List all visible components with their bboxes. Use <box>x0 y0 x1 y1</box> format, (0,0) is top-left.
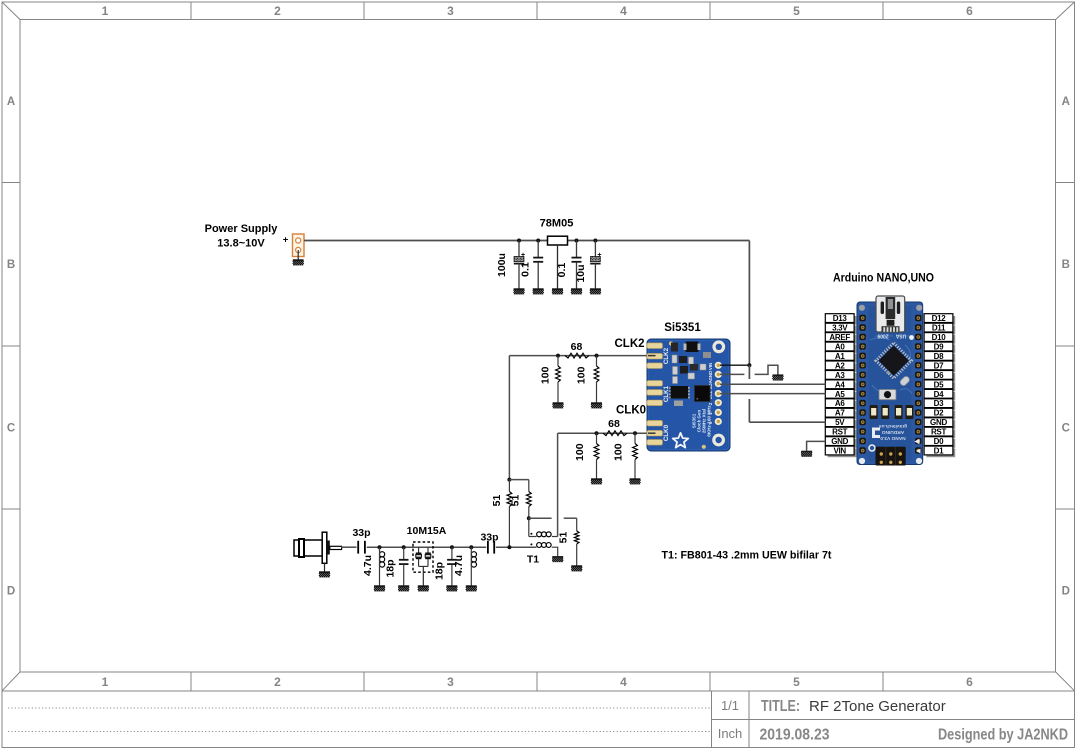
pin label D4 <box>926 392 955 401</box>
svg-text:D11: D11 <box>932 324 946 333</box>
svg-text:1: 1 <box>102 4 109 18</box>
grid row letters left <box>7 96 15 598</box>
svg-text:Arduino NANO,UNO: Arduino NANO,UNO <box>833 273 934 285</box>
svg-text:2: 2 <box>274 675 281 689</box>
crystal X2 <box>427 547 429 553</box>
crystal X1 <box>418 547 420 553</box>
wire CLK0 stub over pad <box>648 432 656 434</box>
capacitor 18p (C7) <box>451 547 453 559</box>
wire CLK0 net <box>558 432 648 434</box>
ground under R7 <box>571 566 582 572</box>
smd below ICs <box>674 401 683 407</box>
pin label A7 <box>828 411 857 420</box>
wire SCL to A5 <box>720 393 825 395</box>
ground under filter <box>418 586 429 592</box>
IC SOIC8 <box>671 386 689 399</box>
pin label VIN <box>828 448 857 457</box>
node junction <box>507 545 511 549</box>
wire BNC shell to ground <box>324 563 326 571</box>
svg-text:100: 100 <box>574 443 586 461</box>
svg-text:51: 51 <box>509 495 521 507</box>
svg-text:+: + <box>283 235 289 246</box>
wire Si5351 GND pad step to ground <box>720 373 744 375</box>
node junction CLK2 branch <box>507 478 511 482</box>
phase dot primary <box>530 533 532 535</box>
capacitor 33p series (C8) <box>487 541 489 554</box>
svg-text:78M05: 78M05 <box>540 218 574 230</box>
node junction L2 <box>469 545 473 549</box>
ground at T1 secondary <box>552 556 563 562</box>
pin label 5V <box>828 420 857 429</box>
left band row separators <box>2 182 20 184</box>
transformer T1 secondary winding <box>537 543 552 548</box>
ground at BNC <box>319 572 330 578</box>
resistor 51 (R7) <box>574 531 579 544</box>
pin label D5 <box>926 382 955 391</box>
svg-text:5: 5 <box>793 675 800 689</box>
svg-text:D6: D6 <box>934 371 944 380</box>
pin label D8 <box>926 354 955 363</box>
svg-text:T1: FB801-43 .2mm UEW bifilar: T1: FB801-43 .2mm UEW bifilar 7t <box>662 550 832 562</box>
header pads right column <box>715 362 722 425</box>
svg-text:A: A <box>7 96 15 108</box>
wire to second 51 resistor <box>509 479 528 481</box>
pin label A2 <box>828 363 857 372</box>
capacitor C1 100u electrolytic <box>514 241 525 289</box>
svg-text:68: 68 <box>571 341 583 353</box>
resistor 51 (R6) <box>528 480 530 492</box>
svg-text:B: B <box>7 259 15 271</box>
svg-text:C: C <box>1062 423 1070 435</box>
svg-text:5V: 5V <box>835 418 845 427</box>
mini USB connector <box>876 296 905 332</box>
resistor 100 (R2) <box>596 356 598 366</box>
svg-text:6: 6 <box>966 675 973 689</box>
svg-text:A: A <box>1062 96 1070 108</box>
svg-text:4: 4 <box>620 4 627 18</box>
svg-text:Si5351: Si5351 <box>664 322 701 334</box>
svg-text:2009: 2009 <box>877 333 888 339</box>
pin label D6 <box>926 373 955 382</box>
capacitor C3 0.1 <box>572 241 582 289</box>
svg-text:A4: A4 <box>835 380 845 389</box>
svg-text:2019.08.23: 2019.08.23 <box>760 727 830 744</box>
svg-text:4.7u: 4.7u <box>453 555 465 576</box>
svg-text:4.7u: 4.7u <box>362 555 374 576</box>
svg-text:CLK0: CLK0 <box>616 405 646 417</box>
svg-text:NANO V3.0: NANO V3.0 <box>880 435 906 441</box>
svg-text:A3: A3 <box>835 371 845 380</box>
svg-text:+: + <box>597 252 601 259</box>
inductor 4.7u (L2) <box>470 547 472 551</box>
CLK2 pads <box>647 343 663 349</box>
svg-text:51: 51 <box>491 495 503 507</box>
svg-text:D: D <box>1062 586 1070 598</box>
wire regulator ground pin <box>557 245 559 289</box>
svg-text:33p: 33p <box>352 527 370 539</box>
silk text column <box>691 405 711 437</box>
svg-text:5: 5 <box>793 4 800 18</box>
Si5351 module U1 board <box>647 339 730 451</box>
ground under C3 <box>571 289 582 295</box>
capacitor 33p series (C5) <box>357 541 359 554</box>
svg-text:D5: D5 <box>934 380 944 389</box>
svg-text:A7: A7 <box>835 409 845 418</box>
svg-text:D4: D4 <box>934 390 944 399</box>
pin label A5 <box>828 392 857 401</box>
ground <box>553 403 564 409</box>
svg-text:+: + <box>521 252 525 259</box>
capacitor 18p (C6) <box>403 547 405 559</box>
capacitor C4 10u electrolytic <box>590 241 601 289</box>
ground under C2 <box>533 289 544 295</box>
svg-text:1/1: 1/1 <box>721 698 739 713</box>
wire secondary right end to ground <box>552 547 558 556</box>
node junction C7 <box>450 545 454 549</box>
crystal filter 10M15A dashed box <box>413 542 433 572</box>
wire C8 to T1 <box>496 546 537 548</box>
connector J1 power input <box>293 234 305 257</box>
pin label RST <box>828 430 857 439</box>
pin label D3 <box>926 401 955 410</box>
ground under C4 <box>590 289 601 295</box>
pin label A0 <box>828 344 857 353</box>
node junction <box>595 431 599 435</box>
svg-text:B: B <box>1062 259 1070 271</box>
pin label 3.3V <box>828 326 857 335</box>
svg-text:3: 3 <box>447 675 454 689</box>
wire 5V to Arduino <box>749 421 825 423</box>
svg-text:18p: 18p <box>434 562 446 580</box>
wire VIN junction to Si5351 VIN pad <box>720 364 749 366</box>
bottom band column separators <box>190 672 192 691</box>
reset button <box>879 390 896 400</box>
resistor 68 (CLK0) <box>603 431 627 436</box>
silk pin names right <box>708 363 713 424</box>
svg-text:D7: D7 <box>934 361 944 370</box>
svg-text:A1: A1 <box>835 352 845 361</box>
svg-text:A5: A5 <box>835 390 845 399</box>
svg-text:68: 68 <box>608 418 620 430</box>
svg-text:USA: USA <box>895 333 906 339</box>
pin label D2 <box>926 411 955 420</box>
wire crossing to 51 load (with gap over vertical) <box>529 517 552 519</box>
ground (Si5351 GND) <box>772 375 783 381</box>
svg-text:ARDUINO: ARDUINO <box>882 429 905 435</box>
IC TCXO <box>695 386 711 402</box>
svg-text:100: 100 <box>576 366 588 384</box>
capacitor C2 0.1 <box>533 241 543 289</box>
svg-text:D3: D3 <box>934 399 944 408</box>
CLK0 pads <box>647 420 663 426</box>
svg-text:CLK1: CLK1 <box>663 385 670 402</box>
svg-text:RST: RST <box>832 428 848 437</box>
pin label D10 <box>926 335 955 344</box>
transformer T1 primary winding <box>537 532 552 537</box>
svg-text:33p: 33p <box>480 532 498 544</box>
pin label D11 <box>926 326 955 335</box>
svg-text:2: 2 <box>274 4 281 18</box>
svg-text:100u: 100u <box>496 253 508 277</box>
svg-text:D12: D12 <box>932 314 947 323</box>
svg-text:51: 51 <box>558 532 570 544</box>
wire main +V rail <box>304 240 749 242</box>
node junction <box>527 516 531 520</box>
ground under C6 <box>398 586 409 592</box>
pin label A4 <box>828 382 857 391</box>
ground <box>591 403 602 409</box>
ground <box>630 479 641 485</box>
svg-text:TITLE:: TITLE: <box>761 698 800 715</box>
pin label D12 <box>926 316 955 325</box>
svg-text:RST: RST <box>931 428 947 437</box>
grid column numbers top <box>102 4 974 18</box>
svg-text:C: C <box>7 423 15 435</box>
resistor 100 (R3) <box>596 433 598 443</box>
svg-text:8KHz-160 MHz: 8KHz-160 MHz <box>707 405 712 437</box>
svg-text:GND: GND <box>831 437 848 446</box>
svg-text:A6: A6 <box>835 399 845 408</box>
svg-text:A2: A2 <box>835 361 845 370</box>
svg-text:CLK2: CLK2 <box>614 338 644 350</box>
phase dot secondary <box>530 543 532 545</box>
BNC connector J2 <box>294 532 327 563</box>
wire C5 to filter <box>367 546 413 548</box>
wire SDA to A4 <box>720 383 825 385</box>
ground at power connector <box>293 260 304 266</box>
svg-text:D9: D9 <box>934 343 944 352</box>
svg-text:CLK0: CLK0 <box>663 424 670 441</box>
resistor 68 (CLK2) <box>565 353 589 358</box>
regulator 78M05 body <box>548 236 568 245</box>
svg-text:10M15A: 10M15A <box>407 525 447 537</box>
svg-text:1: 1 <box>102 675 109 689</box>
svg-text:Inch: Inch <box>718 726 743 741</box>
wire filter common to ground <box>419 565 428 567</box>
wire vertical below junction (gap at crossing) <box>748 365 750 379</box>
pin label A6 <box>828 401 857 410</box>
svg-text:D13: D13 <box>833 314 848 323</box>
svg-text:Power Supply: Power Supply <box>205 223 279 235</box>
pin label D9 <box>926 344 955 353</box>
svg-text:GND: GND <box>708 371 713 381</box>
svg-text:D2: D2 <box>934 409 944 418</box>
svg-text:0.1: 0.1 <box>556 263 568 278</box>
svg-text:RF 2Tone Generator: RF 2Tone Generator <box>809 698 946 715</box>
svg-text:6: 6 <box>966 4 973 18</box>
svg-text:3: 3 <box>447 4 454 18</box>
top band column separators <box>190 2 192 20</box>
svg-text:4: 4 <box>620 675 627 689</box>
wire connector pin2 to ground <box>297 250 299 260</box>
wire BNC to C5 <box>341 546 357 548</box>
ground (Arduino GND) <box>801 451 812 457</box>
LEDs <box>870 405 878 419</box>
pin label A3 <box>828 373 857 382</box>
pin label A1 <box>828 354 857 363</box>
wire rail down to VIN junction <box>748 241 750 366</box>
title block frame <box>2 690 1075 692</box>
svg-text:VIN: VIN <box>708 363 713 370</box>
svg-text:13.8~10V: 13.8~10V <box>217 238 265 250</box>
pin label AREF <box>828 335 857 344</box>
node junction L1 <box>378 545 382 549</box>
pin through-holes <box>859 315 865 321</box>
svg-text:T1: T1 <box>527 554 539 566</box>
small fiducial holes <box>669 341 673 345</box>
svg-text:CLK2: CLK2 <box>663 347 670 364</box>
pin label D13 <box>828 316 857 325</box>
svg-text:100: 100 <box>613 443 625 461</box>
svg-text:A0: A0 <box>835 343 845 352</box>
ground under regulator <box>552 289 563 295</box>
ground under L2 <box>466 586 477 592</box>
corner diagonals <box>2 2 20 20</box>
svg-text:AREF: AREF <box>829 333 850 342</box>
svg-text:18p: 18p <box>385 559 397 577</box>
CLK1 pads <box>647 381 663 387</box>
svg-text:VIN: VIN <box>833 447 846 456</box>
svg-text:D10: D10 <box>932 333 947 342</box>
svg-text:D8: D8 <box>934 352 944 361</box>
node junction VIN <box>747 363 751 367</box>
node junction C6 <box>402 545 406 549</box>
inductor 4.7u (L1) <box>379 547 381 551</box>
resistor 51 (R5) <box>508 480 510 492</box>
ground under L1 <box>374 586 385 592</box>
wire Arduino GND to ground <box>807 441 826 451</box>
pin label RST <box>926 430 955 439</box>
mounting hole bottom <box>712 434 725 447</box>
pin label GND <box>828 439 857 448</box>
grid row letters right <box>1062 96 1070 598</box>
svg-text:0.1: 0.1 <box>520 262 532 277</box>
node junction <box>556 354 560 358</box>
svg-text:gravitech.us: gravitech.us <box>879 423 908 429</box>
svg-text:D: D <box>7 586 15 598</box>
resistor 100 (R1) <box>557 356 559 366</box>
svg-text:3.3V: 3.3V <box>832 324 848 333</box>
ground under C1 <box>514 289 525 295</box>
right band row separators <box>1056 182 1075 184</box>
title block dotted leader lines <box>8 707 711 709</box>
node junction dots on rail <box>517 239 521 243</box>
ground under C7 <box>446 586 457 592</box>
svg-text:Designed by JA2NKD: Designed by JA2NKD <box>938 727 1068 744</box>
resistor 100 (R4) <box>634 433 636 443</box>
smd cluster <box>671 343 678 352</box>
mounting hole top <box>712 340 725 353</box>
svg-text:10u: 10u <box>575 264 587 282</box>
grid column numbers bottom <box>102 675 974 689</box>
crystal component <box>686 342 699 353</box>
ICSP header <box>876 447 906 466</box>
star logo <box>673 433 689 448</box>
svg-text:D0: D0 <box>934 437 944 446</box>
svg-text:100: 100 <box>540 366 552 384</box>
wire CLK2 net <box>565 355 648 357</box>
svg-text:GND: GND <box>930 418 947 427</box>
svg-text:D1: D1 <box>934 447 944 456</box>
MCU chip <box>876 343 911 378</box>
Arduino board photo <box>857 296 923 466</box>
pin label D1 <box>926 448 955 457</box>
pin label GND <box>926 420 955 429</box>
wire CLK2 stub over pad <box>648 355 656 357</box>
pin label D7 <box>926 363 955 372</box>
wire primary right end up to CLK0 vertical <box>552 536 558 538</box>
ground <box>591 479 602 485</box>
pin label D0 <box>926 439 955 448</box>
wire from junction down to primary <box>528 518 530 536</box>
